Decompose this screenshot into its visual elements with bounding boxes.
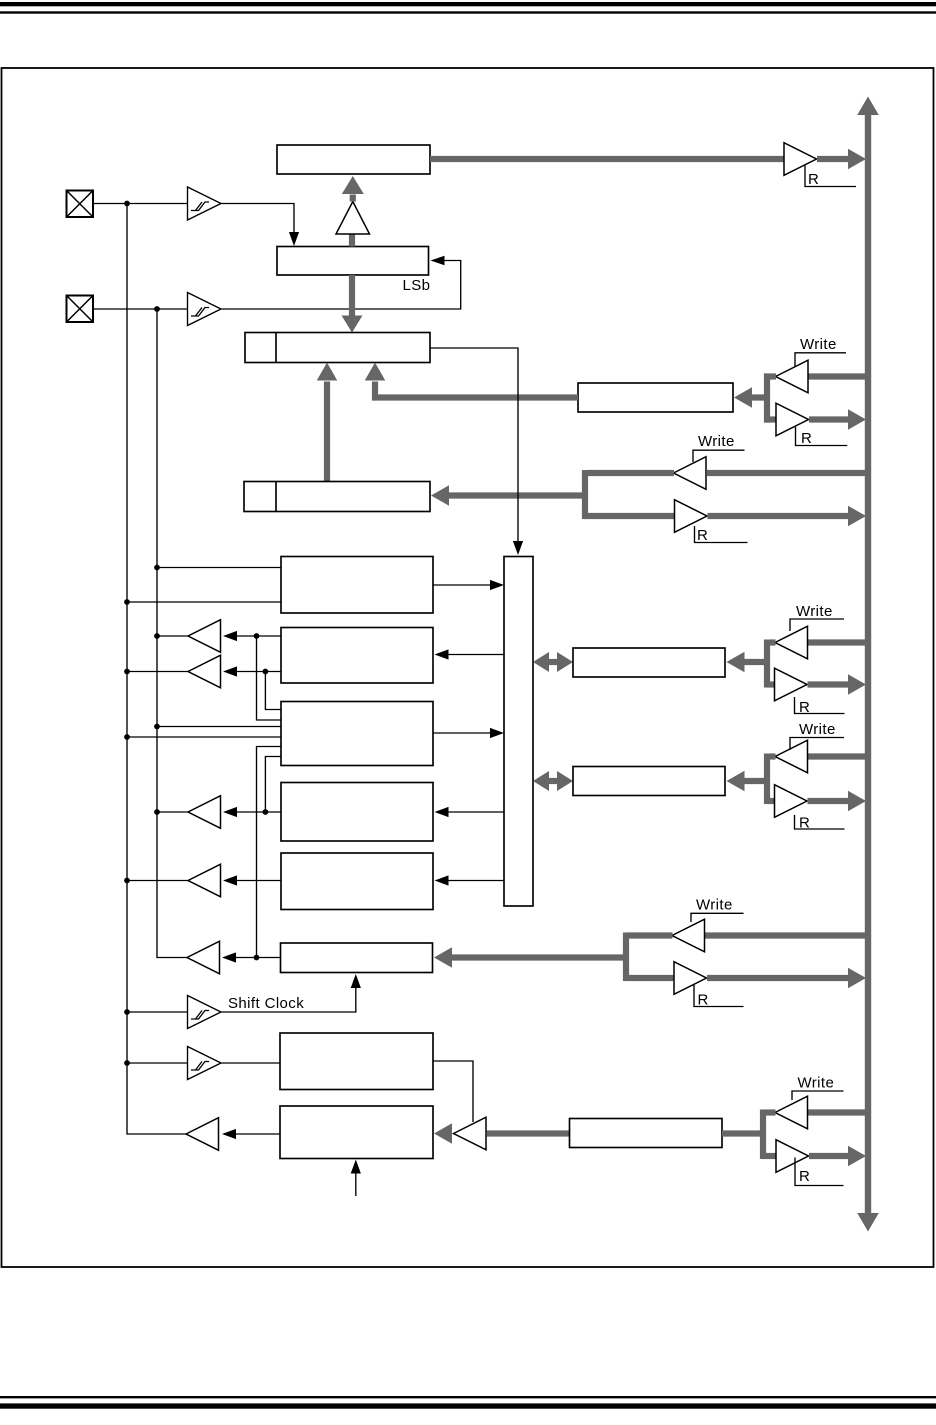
read buffer RB3 xyxy=(775,785,808,818)
junction rail1 B5 xyxy=(124,599,130,605)
wire B1 to buffer R1 xyxy=(430,156,785,162)
wire W2 to bar G2 xyxy=(770,373,776,379)
wire B8 to T3 xyxy=(235,811,281,813)
register B12 xyxy=(280,1106,433,1159)
wire pad P1 to S1 xyxy=(93,203,188,205)
schmitt trigger S1 xyxy=(188,187,222,220)
wire S3 to B10 bottom xyxy=(222,974,361,1012)
junction rail1 T4 xyxy=(124,878,130,884)
buffer T5 xyxy=(187,941,220,974)
wire R2 to bus xyxy=(809,409,866,430)
wire R1 to bus xyxy=(817,149,866,170)
wire bar G4 to R4 xyxy=(625,975,675,981)
bottom thin rule xyxy=(0,1396,936,1398)
register BR1 xyxy=(578,383,733,412)
arrow B2 to B3 xyxy=(342,275,363,333)
read buffer R4 xyxy=(674,962,707,995)
wire S1 to B2 top xyxy=(222,204,300,247)
arrow buffer to B1 xyxy=(342,176,364,202)
label R tag R4 xyxy=(694,985,744,1009)
wire B9 to T4 xyxy=(235,880,281,882)
arrow into B12 bottom xyxy=(351,1160,361,1197)
rail bus left 1 xyxy=(127,204,186,1135)
label Write G2 xyxy=(795,336,846,367)
double arrow MUX-BR2 xyxy=(533,652,573,672)
junction pad P2 rail xyxy=(154,306,160,312)
wire B13 to bar G5 xyxy=(722,1130,766,1136)
wire B3 to MUX xyxy=(430,348,523,555)
read buffer R2 xyxy=(776,403,809,436)
wire bar to BR2 xyxy=(727,652,769,673)
register B13 xyxy=(570,1119,723,1148)
wire bar to RB2 xyxy=(766,681,776,687)
write buffer WB3 xyxy=(775,740,808,773)
top thin rule xyxy=(0,11,936,13)
register B3 xyxy=(245,333,430,363)
wire B11 to T7 xyxy=(433,1061,473,1122)
label R tag R2 xyxy=(796,427,848,447)
junction rail2 B5 xyxy=(154,565,160,571)
wire bar G4 xyxy=(623,933,629,982)
svg-text:Write: Write xyxy=(696,897,733,914)
write buffer W5 xyxy=(775,1096,808,1129)
svg-text:Write: Write xyxy=(799,721,836,738)
label R tag R5 xyxy=(795,1158,844,1186)
wire RB2 to bus xyxy=(808,674,867,695)
label R tag R1 xyxy=(805,166,856,189)
wire W4 to bar G4 xyxy=(626,932,673,938)
wire RB3 to bus xyxy=(808,791,867,812)
svg-text:Write: Write xyxy=(800,336,837,353)
junction rail2 T1 xyxy=(154,633,160,639)
junction rail1 S3 xyxy=(124,1009,130,1015)
wire B7 to MUX xyxy=(433,728,504,738)
wire R4 to bus xyxy=(707,968,866,989)
junction T3 row vertical xyxy=(263,809,269,815)
wire bar G3 to R3 xyxy=(584,513,676,519)
label LSb xyxy=(403,277,431,294)
wire bus to write buffer WB2 xyxy=(808,639,868,645)
arrow B4 to B3 xyxy=(317,363,338,482)
wire bus to write buffer W2 xyxy=(808,373,868,379)
rail bus left 2 xyxy=(157,309,188,958)
wire B6 to T1 xyxy=(235,635,281,637)
wire T1 row to B7 xyxy=(257,636,282,720)
svg-text:Shift Clock: Shift Clock xyxy=(228,995,304,1012)
wire R5 to bus xyxy=(809,1146,866,1167)
label Write GB2 xyxy=(790,603,844,631)
svg-text:R: R xyxy=(698,992,709,1009)
write buffer W2 xyxy=(776,360,809,393)
wire bar GB3 xyxy=(764,754,770,805)
wire bar G2 xyxy=(764,373,770,422)
buffer T7 xyxy=(454,1117,487,1150)
wire bar GB2 xyxy=(764,640,770,688)
write buffer W3 xyxy=(674,457,707,490)
wire bar G3 to B4 xyxy=(431,485,586,506)
arrow into T6 xyxy=(222,1129,236,1139)
read buffer RB2 xyxy=(775,668,808,701)
junction rail1 T2 xyxy=(124,669,130,675)
junction T1 row vertical xyxy=(254,633,260,639)
buffer T1 xyxy=(188,620,221,653)
register B11 xyxy=(280,1033,433,1090)
read buffer R5 xyxy=(776,1140,809,1173)
read buffer R1 xyxy=(784,143,817,176)
wire rail1 to S4 xyxy=(127,1062,188,1064)
arrow B2 to B1 via buffer xyxy=(349,234,355,247)
buffer T4 xyxy=(188,864,221,897)
mux column xyxy=(504,557,533,907)
register B9 xyxy=(281,853,433,910)
register B2 xyxy=(277,247,429,276)
arrow into T2 xyxy=(223,666,237,676)
bottom thick rule xyxy=(0,1403,936,1408)
register B10 xyxy=(281,943,433,973)
svg-text:R: R xyxy=(799,1168,810,1185)
wire B12 to T6 xyxy=(235,1133,280,1135)
label R tag RB3 xyxy=(795,815,845,832)
junction T2 row vertical xyxy=(263,669,269,675)
wire bus to write buffer WB3 xyxy=(808,753,868,759)
wire R3 to bus xyxy=(708,506,867,527)
buffer B2-B1 xyxy=(336,202,370,235)
wire bar G3 xyxy=(582,470,588,519)
label Write G5 xyxy=(792,1075,844,1101)
register B1 xyxy=(277,145,430,174)
internal data bus xyxy=(857,97,879,1232)
pad P1 xyxy=(67,191,94,218)
wire T2 row to B7 xyxy=(265,672,281,710)
buffer T3 xyxy=(188,796,221,829)
buffer T2 xyxy=(188,655,221,688)
wire BR1 to B3 xyxy=(365,363,578,398)
svg-text:Write: Write xyxy=(698,433,735,450)
svg-text:LSb: LSb xyxy=(403,277,431,294)
write buffer WB2 xyxy=(775,626,808,659)
schmitt trigger S4 xyxy=(188,1047,222,1080)
wire bar to BR3 xyxy=(727,771,769,792)
top thick rule xyxy=(0,2,936,6)
junction rail2 B7 xyxy=(154,724,160,730)
register B8 xyxy=(281,783,433,842)
svg-text:R: R xyxy=(808,171,819,188)
wire T2 to rail1 xyxy=(127,671,188,673)
wire S4 to B11 xyxy=(222,1062,281,1064)
wire B7 to T5 row xyxy=(257,747,282,958)
wire rail1 to S3 xyxy=(127,1011,188,1013)
wire rail2 to B7 xyxy=(157,726,281,728)
label Write G4 xyxy=(691,897,744,923)
wire bar G5 xyxy=(760,1110,766,1160)
wire bar G5 to R5 xyxy=(762,1153,777,1159)
svg-text:Write: Write xyxy=(796,603,833,620)
wire S2 feedback to B2 xyxy=(222,256,461,309)
wire pad P2 to S2 xyxy=(93,308,188,310)
read buffer R3 xyxy=(675,500,708,533)
label Write GB3 xyxy=(790,721,844,750)
double arrow MUX-BR3 xyxy=(533,771,573,791)
wire B10 to T5 xyxy=(235,957,281,959)
svg-text:R: R xyxy=(799,815,810,832)
wire rail1 to B7 xyxy=(127,736,281,738)
schmitt trigger S2 xyxy=(188,293,222,326)
register BR2 xyxy=(573,648,725,677)
wire B13 to T7 xyxy=(487,1130,570,1136)
wire bus to write buffer W4 xyxy=(705,932,868,938)
label Shift Clock xyxy=(228,995,304,1012)
wire MUX to B9 xyxy=(435,875,505,885)
wire bar G4 to B10 xyxy=(434,947,626,968)
wire bar to RB3 xyxy=(766,798,776,804)
wire WB3 to bar xyxy=(770,753,776,759)
wire B5 to MUX xyxy=(433,580,504,590)
wire bus to write buffer W5 xyxy=(808,1109,868,1115)
schmitt trigger S3 xyxy=(188,996,222,1029)
pad P2 xyxy=(67,296,94,323)
register BR3 xyxy=(573,767,725,796)
arrow into T4 xyxy=(223,875,237,885)
arrow into T5 xyxy=(222,952,236,962)
wire T4 to rail1 xyxy=(127,880,188,882)
register B6 xyxy=(281,628,433,684)
wire WB2 to bar xyxy=(770,639,776,645)
wire MUX to B8 xyxy=(435,807,505,817)
wire B6 to T2 xyxy=(235,671,281,673)
wire bar G2 to R2 xyxy=(766,416,777,422)
junction rail2 T3 xyxy=(154,809,160,815)
register B5 xyxy=(281,557,433,614)
junction rail1 S4 xyxy=(124,1060,130,1066)
arrow into T3 xyxy=(223,807,237,817)
junction pad P1 rail xyxy=(124,201,130,207)
wire T7 to B12 xyxy=(434,1123,452,1144)
label R tag RB2 xyxy=(795,697,845,716)
label Write G3 xyxy=(693,433,745,462)
wire MUX to B6 xyxy=(435,649,505,659)
wire rail1 to B5 xyxy=(127,601,281,603)
svg-text:R: R xyxy=(801,430,812,447)
wire T1 to rail2 xyxy=(157,635,188,637)
wire T3 to rail2 xyxy=(157,811,188,813)
junction T5 row vertical xyxy=(254,955,260,961)
buffer T6 xyxy=(186,1118,219,1151)
write buffer W4 xyxy=(672,919,705,952)
wire bar G2 to BR1 xyxy=(734,387,768,408)
wire B7 to T3 row xyxy=(265,757,281,813)
wire rail2 to B5 xyxy=(157,567,281,569)
wire bus to write buffer W3 xyxy=(707,470,868,476)
arrow into T1 xyxy=(223,631,237,641)
svg-text:R: R xyxy=(697,527,708,544)
wire W3 to bar G3 xyxy=(588,470,674,476)
svg-text:Write: Write xyxy=(798,1075,835,1092)
register B7 xyxy=(281,702,433,766)
register B4 xyxy=(244,482,430,512)
wire W5 to bar G5 xyxy=(766,1109,776,1115)
svg-text:R: R xyxy=(799,699,810,716)
label R tag R3 xyxy=(695,526,748,544)
junction rail1 B7 xyxy=(124,734,130,740)
